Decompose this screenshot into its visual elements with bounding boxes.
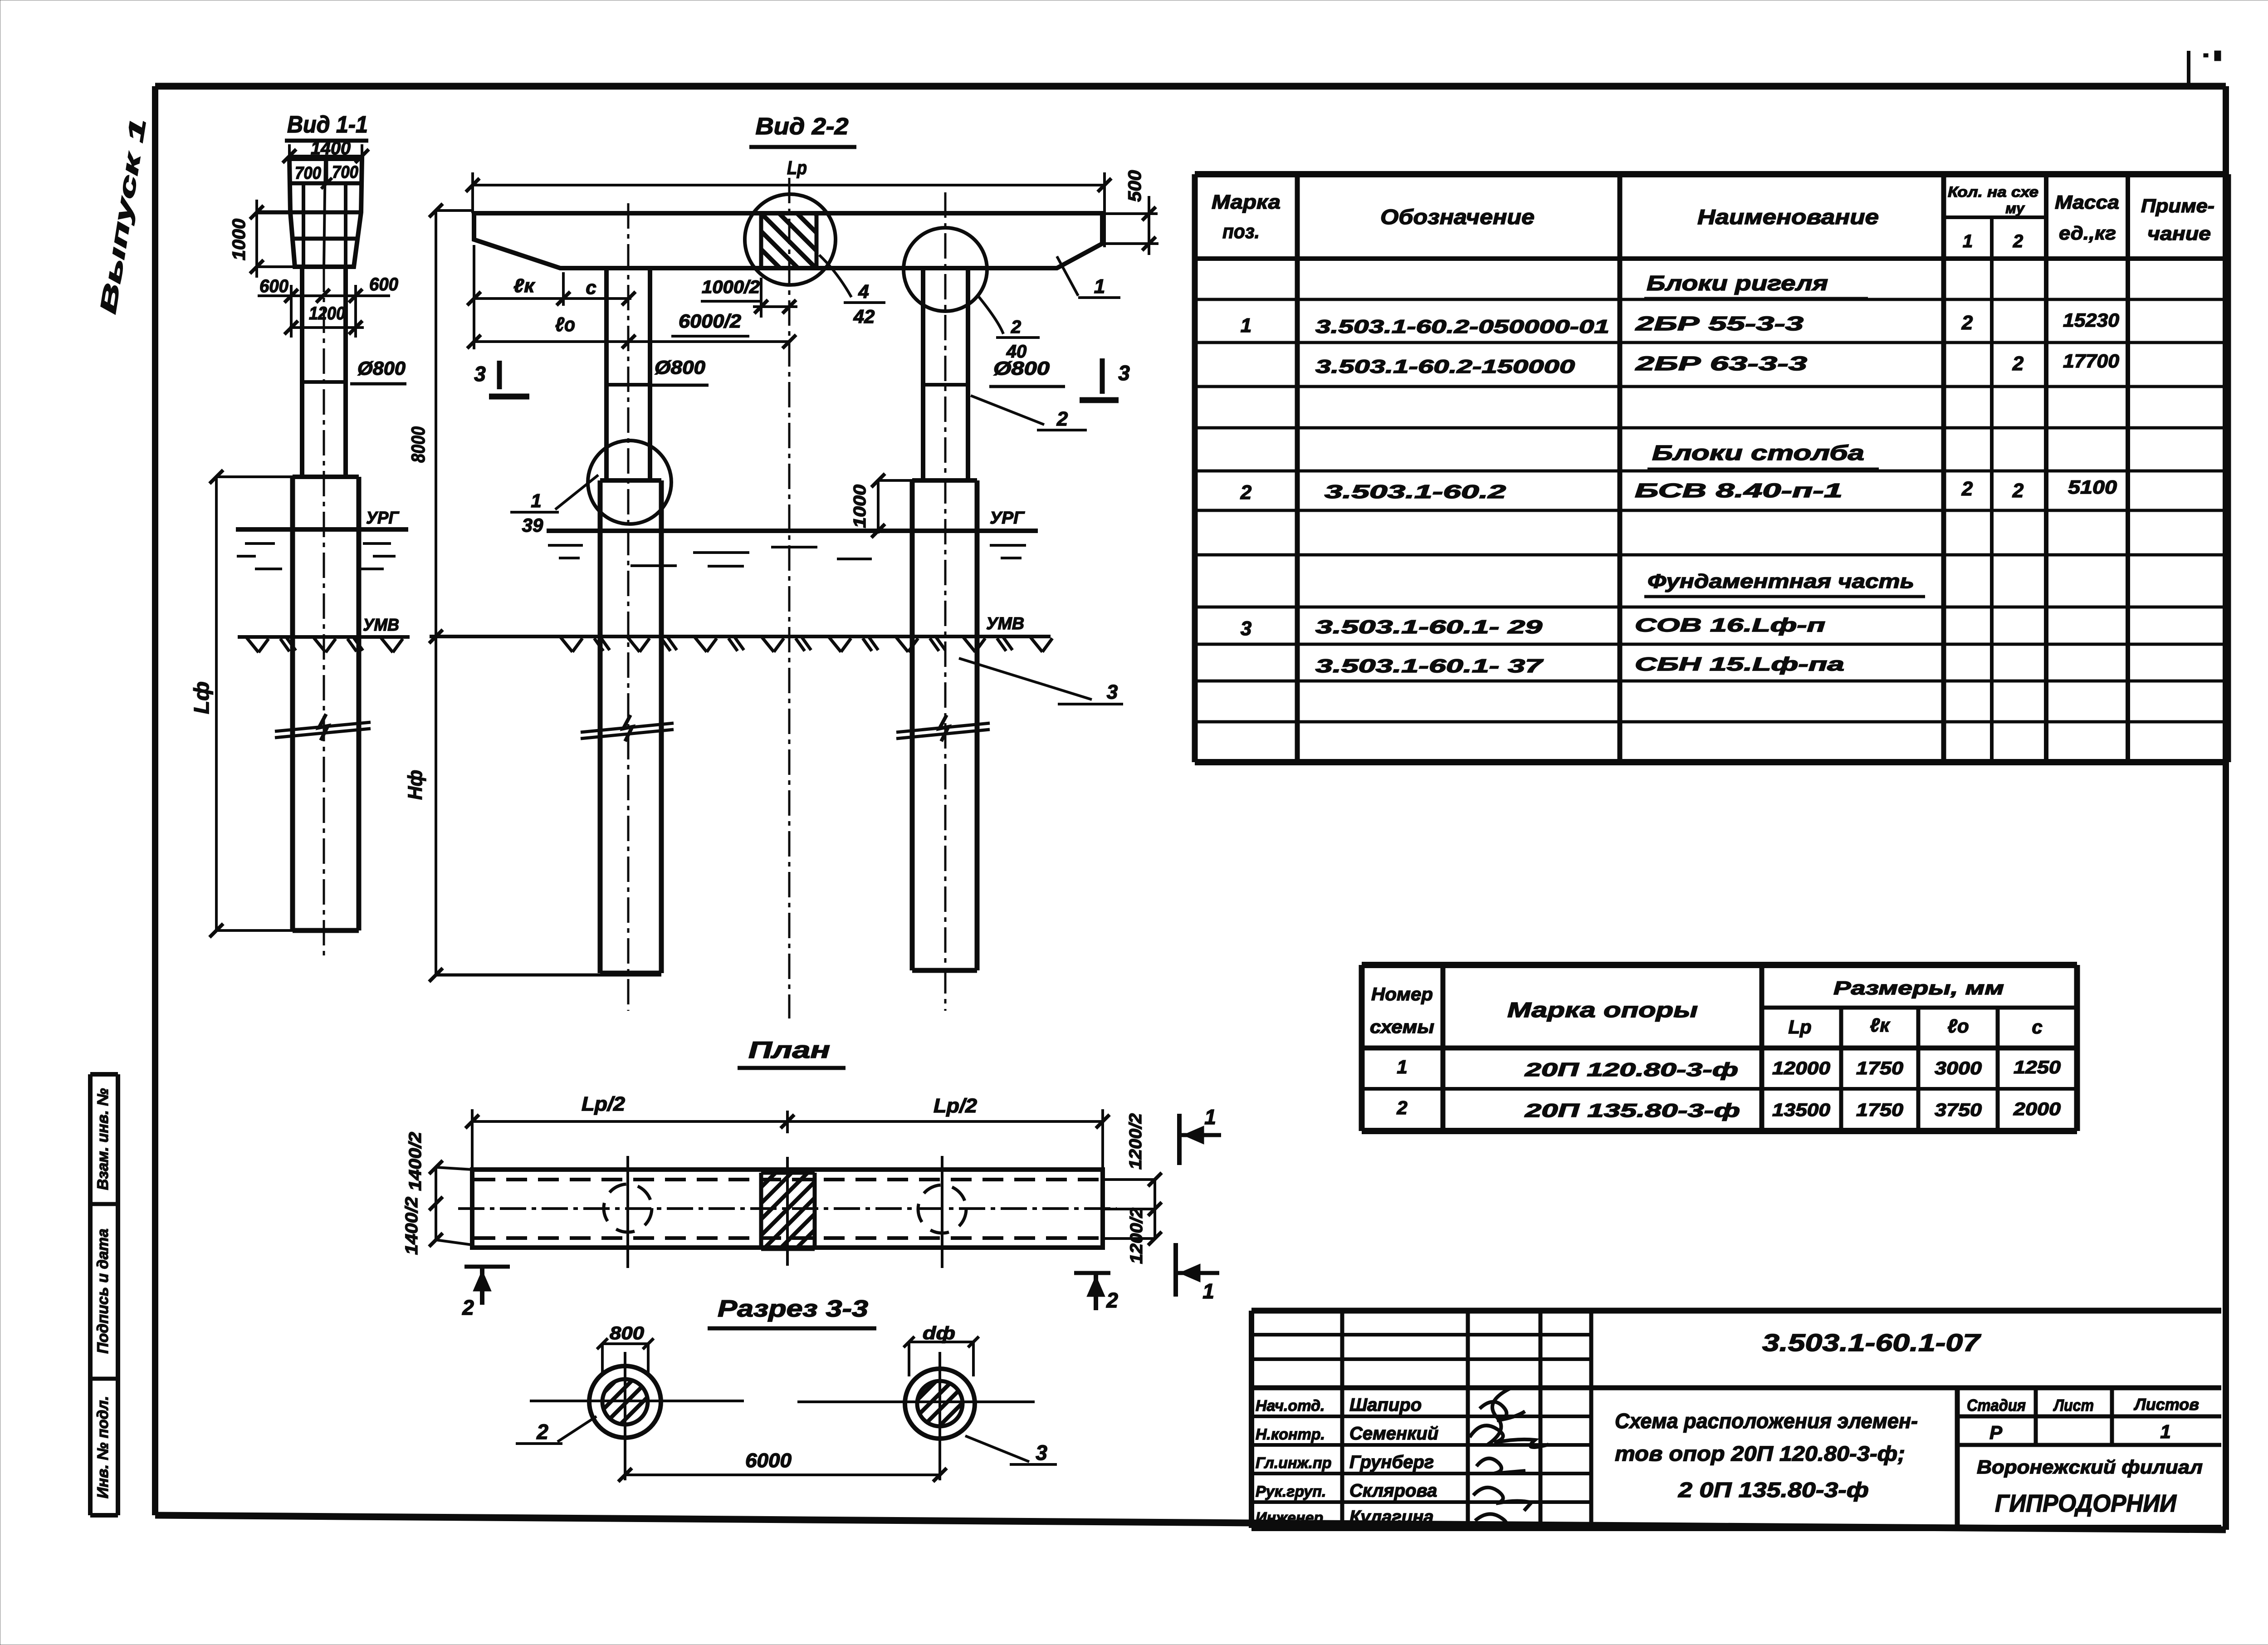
crossbeam (ригель) outline — [474, 213, 1102, 268]
svg-text:2: 2 — [1056, 408, 1068, 430]
svg-text:Склярова: Склярова — [1349, 1481, 1437, 1501]
shaft edges through cap — [303, 183, 346, 267]
svg-text:1: 1 — [1397, 1056, 1407, 1077]
section mark 1 (upper right) — [1179, 1114, 1221, 1165]
svg-text:Гл.инж.пр: Гл.инж.пр — [1256, 1454, 1332, 1472]
columns — [606, 268, 968, 480]
svg-text:Шапиро: Шапиро — [1349, 1395, 1422, 1415]
leader 1 (beam) — [1057, 256, 1078, 296]
shaft axis — [323, 267, 325, 956]
water level УРГ (Vid 1-1) — [236, 527, 408, 532]
svg-text:42: 42 — [853, 306, 875, 327]
svg-text:1400/2: 1400/2 — [406, 1132, 425, 1191]
plan left dims 1400/2 — [429, 1160, 472, 1247]
svg-text:Марка: Марка — [1212, 191, 1281, 213]
pier axis — [788, 178, 791, 1018]
svg-text:2: 2 — [2013, 231, 2023, 251]
plan axis — [458, 1207, 1117, 1210]
svg-text:ℓк: ℓк — [1870, 1014, 1891, 1036]
svg-text:Инв. № подл.: Инв. № подл. — [94, 1396, 112, 1498]
svg-text:ℓо: ℓо — [555, 313, 575, 336]
svg-text:тов опор 20П 120.80-3-ф;: тов опор 20П 120.80-3-ф; — [1615, 1442, 1905, 1465]
shaft joint line — [302, 380, 346, 384]
svg-text:Кол. на схе: Кол. на схе — [1948, 184, 2038, 200]
svg-text:1: 1 — [1202, 1279, 1214, 1303]
svg-text:чание: чание — [2147, 223, 2211, 244]
svg-text:20П 135.80-3-ф: 20П 135.80-3-ф — [1524, 1100, 1740, 1121]
svg-text:2: 2 — [2012, 480, 2024, 502]
svg-text:Lр/2: Lр/2 — [934, 1095, 978, 1117]
dim Lф — [210, 470, 293, 937]
section axes — [530, 1400, 744, 1402]
leader 3 — [965, 1436, 1029, 1462]
svg-text:Вид 2-2: Вид 2-2 — [756, 113, 849, 140]
svg-text:с: с — [586, 277, 596, 298]
svg-text:6000: 6000 — [745, 1449, 792, 1472]
svg-text:Блоки столба: Блоки столба — [1652, 441, 1864, 465]
svg-text:ℓк: ℓк — [513, 275, 535, 296]
column cap outline — [289, 159, 362, 267]
detail circle 2 (right column top) — [904, 228, 987, 311]
svg-text:План: План — [748, 1037, 830, 1063]
svg-text:2: 2 — [1240, 481, 1252, 504]
svg-text:Блоки ригеля: Блоки ригеля — [1647, 271, 1828, 295]
cap centre axis — [324, 159, 325, 267]
cap horizontals + 700 dims — [257, 159, 362, 267]
left frame stamp boxes — [90, 1074, 118, 1515]
svg-text:1200/2: 1200/2 — [1126, 1113, 1145, 1170]
column circles (dashed) in plan — [604, 1184, 652, 1232]
plan right dims 1200/2 — [1103, 1173, 1162, 1245]
svg-text:Ø800: Ø800 — [655, 357, 705, 378]
svg-text:1200/2: 1200/2 — [1127, 1208, 1146, 1264]
svg-text:УРГ: УРГ — [990, 509, 1025, 528]
svg-text:Наименование: Наименование — [1697, 205, 1879, 229]
hidden edges (dashed) — [474, 1178, 1101, 1181]
water dashes — [237, 543, 396, 569]
svg-text:схемы: схемы — [1370, 1017, 1434, 1037]
leader 4/42 — [819, 255, 851, 297]
leader 2 (right column shaft) — [971, 396, 1044, 425]
svg-text:СБН 15.Lф-па: СБН 15.Lф-па — [1635, 653, 1844, 675]
svg-text:1400/2: 1400/2 — [402, 1197, 421, 1255]
svg-text:Листов: Листов — [2133, 1395, 2199, 1414]
svg-text:3: 3 — [1241, 617, 1251, 640]
svg-text:БСВ 8.40-п-1: БСВ 8.40-п-1 — [1635, 480, 1843, 502]
svg-text:Нф: Нф — [404, 770, 426, 800]
section mark 3 (left) — [489, 361, 529, 397]
svg-text:Фундаментная часть: Фундаментная часть — [1647, 570, 1914, 592]
svg-text:Lр: Lр — [787, 157, 807, 178]
svg-text:15230: 15230 — [2063, 309, 2119, 331]
svg-text:Грунберг: Грунберг — [1349, 1452, 1434, 1472]
svg-text:поз.: поз. — [1222, 220, 1260, 243]
svg-text:3750: 3750 — [1935, 1100, 1982, 1120]
dim 1000 (cap lower band) — [250, 200, 295, 278]
svg-text:Р: Р — [1989, 1422, 2003, 1443]
svg-text:600: 600 — [369, 274, 398, 294]
svg-text:Вид 1-1: Вид 1-1 — [287, 112, 368, 138]
svg-text:2БР 63-3-3: 2БР 63-3-3 — [1635, 352, 1807, 375]
section mark 1 (lower right) — [1176, 1243, 1219, 1297]
leader 2/40 — [978, 296, 1003, 334]
dims lо / 6000/2 — [467, 335, 796, 348]
svg-text:му: му — [2005, 200, 2025, 216]
pile break symbols — [581, 715, 990, 741]
water dashes — [548, 545, 1026, 566]
leader 2 — [557, 1416, 596, 1442]
parts table — [1195, 174, 2228, 762]
svg-text:3: 3 — [1107, 681, 1118, 703]
svg-text:1750: 1750 — [1856, 1058, 1903, 1078]
dims Lр/2 — [465, 1109, 1110, 1173]
svg-text:3: 3 — [474, 362, 486, 386]
column shaft — [302, 267, 346, 477]
svg-text:СОВ 16.Lф-п: СОВ 16.Lф-п — [1635, 614, 1825, 636]
svg-text:4: 4 — [858, 281, 869, 302]
dims 600 600 — [258, 285, 390, 338]
svg-text:500: 500 — [1125, 170, 1145, 202]
svg-text:Размеры, мм: Размеры, мм — [1833, 977, 2004, 999]
svg-text:2 0П 135.80-3-ф: 2 0П 135.80-3-ф — [1678, 1478, 1869, 1502]
section mark 2 (right) — [1074, 1273, 1110, 1310]
svg-text:Lр/2: Lр/2 — [582, 1093, 626, 1115]
section mark 3 (right) — [1080, 358, 1119, 400]
ground level УМВ (Vid 2-2) — [430, 635, 1051, 638]
detail circle 1 (left column base) — [588, 441, 671, 524]
pile break symbol — [275, 714, 371, 740]
big flourish over top sig rows — [1488, 1388, 1510, 1444]
svg-text:Схема расположения элемен-: Схема расположения элемен- — [1615, 1409, 1918, 1433]
svg-text:Номер: Номер — [1371, 984, 1433, 1004]
svg-text:8000: 8000 — [407, 426, 429, 463]
svg-text:3.503.1-60.1-07: 3.503.1-60.1-07 — [1762, 1329, 1982, 1356]
foundation pile (Vid 1-1) — [293, 477, 359, 930]
svg-text:Lр: Lр — [1788, 1016, 1811, 1038]
svg-text:1: 1 — [531, 490, 541, 511]
svg-text:Н.контр.: Н.контр. — [1256, 1426, 1325, 1443]
svg-text:1: 1 — [1963, 231, 1973, 251]
svg-text:УМВ: УМВ — [986, 614, 1024, 633]
svg-text:Марка опоры: Марка опоры — [1507, 998, 1698, 1022]
svg-text:600: 600 — [259, 276, 288, 296]
plan key block hatched — [761, 1173, 815, 1249]
svg-text:2: 2 — [2012, 352, 2024, 375]
svg-text:13500: 13500 — [1772, 1100, 1830, 1120]
svg-text:Масса: Масса — [2055, 191, 2119, 213]
svg-text:Взам. инв. №: Взам. инв. № — [94, 1088, 112, 1190]
leader 3 (right pile) — [959, 658, 1092, 700]
svg-text:Рук.груп.: Рук.груп. — [1256, 1483, 1326, 1500]
svg-text:2000: 2000 — [2013, 1099, 2061, 1119]
dim 1000 (right pile top) — [871, 474, 912, 538]
dim line 8000 / Нф — [429, 204, 661, 982]
svg-text:Ø800: Ø800 — [357, 357, 406, 379]
svg-text:700: 700 — [332, 163, 358, 182]
svg-text:3.503.1-60.2-050000-01: 3.503.1-60.2-050000-01 — [1315, 316, 1609, 337]
ground level УМВ (Vid 1-1) — [238, 635, 410, 639]
svg-text:1: 1 — [2160, 1421, 2170, 1442]
svg-text:dф: dф — [923, 1323, 955, 1343]
svg-text:2: 2 — [1961, 312, 1973, 334]
plan beam outline — [472, 1170, 1103, 1248]
svg-text:39: 39 — [522, 514, 543, 536]
svg-text:ГИПРОДОРНИИ: ГИПРОДОРНИИ — [1995, 1490, 2177, 1517]
svg-text:12000: 12000 — [1772, 1058, 1830, 1078]
schemes table — [1362, 965, 2077, 1131]
svg-text:Подпись и дата: Подпись и дата — [94, 1229, 112, 1354]
svg-text:700: 700 — [295, 164, 321, 183]
svg-text:2БР 55-3-3: 2БР 55-3-3 — [1635, 313, 1804, 335]
svg-text:800: 800 — [610, 1323, 644, 1343]
svg-text:Воронежский филиал: Воронежский филиал — [1977, 1456, 2203, 1478]
svg-text:1000: 1000 — [850, 485, 870, 528]
svg-text:1: 1 — [1204, 1105, 1216, 1129]
svg-text:Инженер: Инженер — [1256, 1509, 1323, 1527]
svg-text:1750: 1750 — [1856, 1100, 1903, 1120]
dims lк / c — [467, 245, 635, 349]
section mark 2 (left) — [464, 1267, 510, 1305]
svg-text:Лист: Лист — [2053, 1396, 2094, 1415]
svg-text:Кулагина: Кулагина — [1349, 1507, 1434, 1527]
svg-text:1000: 1000 — [229, 219, 249, 260]
svg-text:1000/2: 1000/2 — [702, 277, 760, 297]
svg-text:УРГ: УРГ — [366, 509, 400, 528]
svg-text:Нач.отд.: Нач.отд. — [1256, 1397, 1325, 1415]
svg-text:Стадия: Стадия — [1967, 1396, 2026, 1415]
svg-text:3.503.1-60.1- 29: 3.503.1-60.1- 29 — [1315, 616, 1543, 637]
svg-text:1: 1 — [1241, 314, 1251, 337]
svg-text:УМВ: УМВ — [363, 616, 399, 635]
svg-text:3: 3 — [1118, 361, 1130, 385]
svg-text:3: 3 — [1036, 1441, 1047, 1464]
svg-text:Ø800: Ø800 — [993, 357, 1050, 379]
svg-text:2: 2 — [462, 1296, 474, 1319]
signatures squiggles — [1480, 1402, 1525, 1420]
svg-text:20П 120.80-3-ф: 20П 120.80-3-ф — [1524, 1059, 1738, 1080]
svg-text:Семенкий: Семенкий — [1349, 1424, 1438, 1444]
svg-text:ед.,кг: ед.,кг — [2059, 222, 2116, 244]
column axes — [627, 203, 630, 1011]
water level УРГ (Vid 2-2) — [547, 529, 1038, 533]
svg-text:1200: 1200 — [309, 304, 345, 323]
foundation piles (Vid 2-2) — [600, 480, 977, 973]
svg-text:Lф: Lф — [190, 681, 213, 714]
svg-text:3.503.1-60.2: 3.503.1-60.2 — [1325, 481, 1506, 502]
svg-text:2: 2 — [1011, 317, 1021, 337]
svg-text:3000: 3000 — [1935, 1058, 1982, 1078]
svg-text:1: 1 — [1094, 275, 1105, 298]
svg-text:6000/2: 6000/2 — [679, 310, 741, 332]
dim 6000 — [618, 1468, 947, 1482]
svg-text:2: 2 — [1961, 478, 1973, 500]
svg-text:2: 2 — [536, 1420, 548, 1444]
leader 1/39 — [555, 475, 598, 509]
svg-text:Разрез 3-3: Разрез 3-3 — [718, 1296, 868, 1322]
svg-text:17700: 17700 — [2063, 350, 2119, 372]
svg-text:1250: 1250 — [2014, 1057, 2061, 1077]
svg-text:2: 2 — [1396, 1097, 1407, 1118]
svg-text:ℓо: ℓо — [1947, 1015, 1969, 1037]
left pile section — [589, 1366, 661, 1438]
right pile section — [905, 1369, 975, 1439]
svg-text:2: 2 — [1106, 1288, 1118, 1312]
svg-text:3.503.1-60.1- 37: 3.503.1-60.1- 37 — [1315, 655, 1544, 676]
dim 500 (beam end) — [1102, 196, 1158, 255]
svg-text:5100: 5100 — [2068, 476, 2117, 498]
svg-text:Приме-: Приме- — [2141, 195, 2214, 216]
detail circle 4 — [745, 194, 836, 285]
svg-text:3.503.1-60.2-150000: 3.503.1-60.2-150000 — [1315, 356, 1575, 377]
title block — [1251, 1311, 2221, 1528]
svg-text:с: с — [2032, 1016, 2042, 1038]
key block (hatched) in beam — [761, 215, 816, 268]
svg-text:Обозначение: Обозначение — [1380, 205, 1535, 229]
